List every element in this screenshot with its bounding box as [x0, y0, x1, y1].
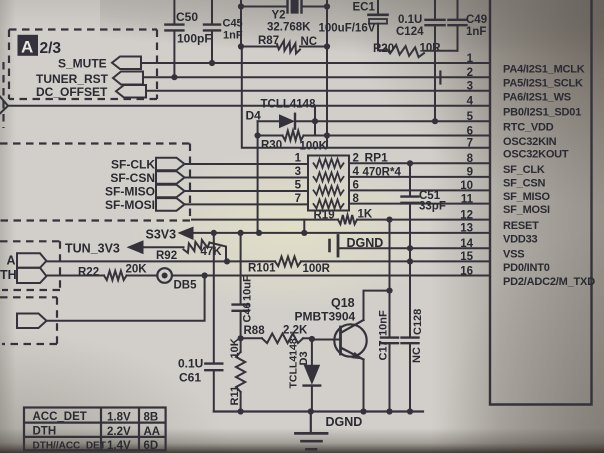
- wire R20 to caps: [424, 50, 458, 52]
- svg-text:RESET: RESET: [503, 220, 539, 232]
- junction collector-C17: [386, 288, 392, 294]
- junction VSS-C128: [407, 245, 413, 251]
- wire off-page to pin 4: [8, 105, 490, 107]
- svg-text:6: 6: [353, 179, 359, 191]
- svg-text:PD2/ADC2/M_TXD: PD2/ADC2/M_TXD: [503, 276, 595, 288]
- node TUN_3V3 arrow: [127, 240, 144, 254]
- svg-text:R101: R101: [248, 263, 276, 275]
- svg-text:2/3: 2/3: [40, 40, 62, 57]
- svg-text:10R: 10R: [420, 43, 442, 55]
- svg-text:AA: AA: [144, 426, 161, 438]
- svg-text:10K: 10K: [229, 338, 241, 358]
- svg-text:R11: R11: [229, 386, 241, 406]
- wire SF line 4 right: [349, 203, 490, 205]
- node S3V3 arrow: [178, 227, 194, 241]
- junction RTC_VDD: [432, 118, 438, 124]
- svg-text:1.4V: 1.4V: [107, 440, 131, 452]
- connector flag S_MUTE: [112, 57, 141, 70]
- wire R92 to PD0 row: [210, 243, 227, 262]
- wire SF line 2 right: [349, 176, 490, 178]
- capacitor C49: [449, 0, 467, 51]
- wire SF line 3 left: [185, 190, 309, 192]
- svg-text:NC: NC: [411, 347, 423, 363]
- svg-text:SF_CSN: SF_CSN: [503, 177, 545, 189]
- svg-text:PD0/INT0: PD0/INT0: [503, 262, 550, 274]
- resistor R19: [338, 215, 357, 224]
- wire ground rail: [214, 410, 423, 412]
- connector flag TH2: [17, 314, 47, 329]
- junction SF_CLK-C51: [407, 160, 413, 166]
- wire PD2 mid: [127, 275, 158, 277]
- resistor R88: [262, 334, 303, 344]
- connector flag DC_OFFSET: [116, 85, 146, 98]
- svg-text:C17: C17: [378, 340, 390, 360]
- svg-text:PA5/I2S1_SCLK: PA5/I2S1_SCLK: [503, 78, 583, 90]
- wire SF line 1 left: [185, 163, 309, 165]
- label A2/3 badge: [18, 35, 62, 57]
- resistor R87: [241, 41, 327, 54]
- svg-text:PMBT3904: PMBT3904: [295, 310, 356, 324]
- svg-text:8B: 8B: [144, 411, 159, 423]
- svg-text:DGND: DGND: [326, 415, 363, 429]
- resistor RP1 element 2: [314, 173, 344, 182]
- svg-text:47K: 47K: [201, 246, 223, 258]
- diode D3: [304, 339, 321, 412]
- capacitor C17: [381, 291, 398, 412]
- svg-text:S_MUTE: S_MUTE: [58, 57, 107, 71]
- junction PD0-C128: [407, 258, 413, 264]
- svg-text:ACC_DET: ACC_DET: [33, 411, 87, 423]
- svg-text:VDD33: VDD33: [503, 233, 538, 245]
- svg-text:6D: 6D: [144, 440, 159, 452]
- svg-text:R92: R92: [156, 250, 177, 262]
- resistor R22: [104, 271, 127, 280]
- wire Q18 collector: [364, 291, 390, 320]
- svg-text:R30: R30: [261, 140, 282, 152]
- svg-text:1: 1: [295, 152, 302, 164]
- svg-text:1.8V: 1.8V: [107, 411, 131, 423]
- svg-text:PB0/I2S1_SD01: PB0/I2S1_SD01: [503, 106, 581, 118]
- svg-text:Q18: Q18: [331, 296, 355, 310]
- wire Q18 emitter: [363, 360, 365, 412]
- svg-text:OSC32KIN: OSC32KIN: [503, 136, 557, 148]
- svg-text:C49: C49: [466, 14, 487, 26]
- svg-text:C61: C61: [179, 371, 201, 385]
- junction crystal corners: [238, 3, 244, 9]
- junction S3V3-C61: [211, 230, 217, 236]
- crystal Y2: [241, 0, 327, 14]
- wire node RTC_VDD left: [258, 120, 279, 122]
- svg-text:TH: TH: [0, 268, 17, 282]
- svg-text:0.1U: 0.1U: [178, 357, 203, 371]
- wire SF line 1 right: [349, 162, 490, 164]
- wire C17 riser: [389, 220, 391, 291]
- svg-text:R88: R88: [244, 325, 266, 337]
- svg-text:470R*4: 470R*4: [363, 167, 402, 179]
- capacitor C46: [233, 233, 249, 352]
- junction R30 left: [255, 132, 261, 138]
- ground DGND symbol: [296, 412, 328, 450]
- junction C50-row2: [171, 74, 177, 80]
- testpoint DB5: [157, 268, 172, 283]
- junction S3V3-R19: [301, 230, 307, 236]
- dashed box TH2: [0, 297, 57, 344]
- svg-text:10uF: 10uF: [242, 275, 254, 301]
- wire crystal stub left: [240, 0, 242, 7]
- wire TH2 to PD2 row: [47, 276, 205, 321]
- junction R88: [238, 335, 244, 341]
- wire OSC32KOUT: [242, 47, 490, 148]
- svg-text:RTC_VDD: RTC_VDD: [503, 122, 554, 134]
- svg-text:R20: R20: [373, 43, 394, 55]
- svg-text:C46: C46: [242, 302, 254, 322]
- svg-text:D4: D4: [246, 109, 262, 123]
- svg-text:A: A: [7, 254, 16, 268]
- dashed box SF group: [0, 144, 190, 221]
- svg-text:VSS: VSS: [503, 249, 524, 261]
- svg-text:DC_OFFSET: DC_OFFSET: [36, 85, 108, 99]
- svg-text:0.1U: 0.1U: [398, 14, 422, 26]
- svg-text:3: 3: [295, 166, 301, 178]
- resistor R20: [386, 45, 424, 57]
- svg-text:1nF: 1nF: [223, 30, 243, 42]
- wire OSC32KIN right: [304, 135, 491, 137]
- svg-text:8: 8: [353, 193, 360, 205]
- junction TH2-PD2: [202, 272, 208, 278]
- resistor RP1 element 3: [314, 186, 344, 195]
- capacitor EC1: [369, 0, 388, 50]
- dashed box A2/3: [9, 30, 157, 100]
- svg-text:OSC32KOUT: OSC32KOUT: [503, 148, 569, 160]
- resistor R101: [275, 257, 301, 267]
- svg-text:33pF: 33pF: [419, 201, 446, 213]
- resistor RP1 element 4: [314, 200, 344, 209]
- wire TUN_3V3: [144, 246, 184, 248]
- svg-text:A: A: [21, 38, 33, 57]
- wire SF line 3 right: [349, 189, 490, 191]
- wire R11 bottom: [240, 392, 242, 412]
- wire R19 tap: [303, 220, 305, 233]
- wire RESET right: [357, 219, 490, 221]
- wire SF line 4 left: [185, 203, 309, 205]
- wire RESET left: [192, 219, 338, 221]
- junction C45-row1: [209, 60, 215, 66]
- svg-text:SF_CLK: SF_CLK: [503, 164, 545, 176]
- resistor R30: [283, 131, 304, 141]
- svg-text:5: 5: [295, 179, 302, 191]
- svg-text:SF-MISO: SF-MISO: [105, 185, 155, 199]
- connector flag SF-CLK: [156, 158, 185, 171]
- svg-text:PA6/I2S1_WS: PA6/I2S1_WS: [503, 91, 571, 103]
- svg-text:SF-CLK: SF-CLK: [111, 158, 155, 172]
- svg-text:10nF: 10nF: [378, 310, 390, 336]
- junction S3V3-D4: [256, 230, 262, 236]
- connector A/TH: [17, 253, 46, 283]
- svg-text:R87: R87: [258, 35, 279, 47]
- wire VSS to pin 14: [338, 247, 490, 249]
- wire OSC32KIN left: [258, 135, 283, 137]
- svg-text:32.768K: 32.768K: [267, 22, 311, 34]
- svg-text:PA4/I2S1_MCLK: PA4/I2S1_MCLK: [503, 64, 585, 76]
- wire S3V3 riser (D4): [257, 121, 259, 233]
- wire PD2 right: [172, 275, 490, 277]
- svg-text:SF-CSN: SF-CSN: [110, 171, 155, 185]
- transistor Q18: [334, 320, 366, 360]
- table signal levels: [24, 408, 166, 451]
- svg-text:NC: NC: [301, 36, 318, 48]
- dashed box A/TH: [0, 241, 60, 290]
- svg-text:D3: D3: [298, 351, 310, 365]
- resistor network RP1 box: [308, 156, 349, 211]
- wire to RTC_VDD: [434, 51, 436, 122]
- junction S3V3-C46: [238, 230, 244, 236]
- resistor R92: [184, 240, 210, 253]
- svg-text:S3V3: S3V3: [146, 228, 177, 242]
- capacitor C124: [426, 0, 445, 51]
- resistor RP1 element 1: [314, 159, 344, 168]
- junction rail dots: [238, 408, 244, 414]
- svg-text:2.2K: 2.2K: [283, 325, 308, 337]
- junction R30 right: [324, 132, 330, 138]
- dashed edge left upper: [2, 62, 4, 128]
- svg-text:RP1: RP1: [365, 151, 389, 165]
- svg-text:R22: R22: [78, 267, 99, 279]
- svg-text:C45: C45: [223, 18, 243, 30]
- svg-text:DB5: DB5: [174, 280, 198, 292]
- wire DC_OFFSET to pin 3: [146, 90, 490, 92]
- connector flag TUNER_RST: [113, 72, 143, 85]
- svg-text:4: 4: [353, 166, 360, 178]
- svg-text:TUN_3V3: TUN_3V3: [65, 242, 120, 256]
- svg-text:TCLL4148: TCLL4148: [261, 99, 317, 111]
- svg-text:Y2: Y2: [272, 10, 286, 22]
- wire TUNER_RST to pin 2: [143, 76, 490, 78]
- svg-text:DTH//ACC_DET: DTH//ACC_DET: [33, 441, 106, 452]
- wire R88 to base node: [303, 337, 312, 339]
- svg-text:SF_MISO: SF_MISO: [503, 191, 551, 203]
- junction Q18 base node: [309, 336, 315, 342]
- wire C128 upper: [409, 248, 411, 336]
- svg-text:DTH: DTH: [33, 425, 57, 437]
- resistor R11: [236, 352, 245, 392]
- wire D4 right leg: [314, 106, 316, 136]
- wire PD2 left: [46, 275, 104, 277]
- svg-text:7: 7: [295, 193, 301, 205]
- svg-text:100R: 100R: [303, 263, 331, 275]
- capacitor C51: [402, 163, 419, 248]
- svg-text:TUNER_RST: TUNER_RST: [36, 72, 109, 86]
- svg-text:SF-MOSI: SF-MOSI: [105, 198, 155, 212]
- connector flag SF-MISO: [156, 185, 185, 198]
- junction R19-C17: [386, 217, 392, 223]
- junction R92-PD0: [224, 258, 230, 264]
- tick on row2: [439, 72, 441, 84]
- wire R88 left: [241, 337, 262, 339]
- wire crystal right leg: [326, 7, 328, 148]
- off-page connector chevron: [0, 97, 8, 114]
- svg-text:100uF/16V: 100uF/16V: [319, 23, 376, 35]
- wire S_MUTE to pin 1: [141, 62, 490, 64]
- capacitor C45: [204, 0, 220, 63]
- capacitor C128: [402, 336, 419, 338]
- wire R20 node: [378, 49, 386, 51]
- ground DGND bar symbol: [328, 240, 331, 251]
- connector flag SF-CSN: [156, 171, 185, 184]
- wire crystal left leg: [240, 7, 242, 47]
- svg-text:2: 2: [353, 152, 359, 164]
- wire PD0/INT0 right: [301, 260, 490, 262]
- svg-text:SF_MOSI: SF_MOSI: [503, 204, 550, 216]
- capacitor C61: [205, 233, 222, 412]
- svg-text:100pF: 100pF: [177, 32, 212, 46]
- wire SF line 2 left: [185, 177, 309, 179]
- svg-text:1nF: 1nF: [466, 26, 486, 38]
- wire PD0/INT0 left: [46, 260, 275, 262]
- diode D4: [279, 114, 490, 129]
- IC U1 microcontroller outline: [490, 0, 592, 405]
- junction D4-row5: [312, 118, 318, 124]
- capacitor C50: [165, 0, 183, 77]
- wire crystal stub right: [326, 0, 328, 7]
- svg-text:C128: C128: [412, 309, 424, 335]
- svg-text:1K: 1K: [358, 209, 373, 221]
- svg-text:EC1: EC1: [353, 2, 376, 14]
- wire base node to Q18: [312, 339, 341, 341]
- svg-text:20K: 20K: [126, 264, 148, 276]
- svg-text:2.2V: 2.2V: [107, 426, 131, 438]
- svg-text:100K: 100K: [300, 141, 328, 153]
- svg-text:C124: C124: [396, 26, 424, 38]
- wire VDD33 rail: [194, 232, 491, 234]
- connector flag SF-MOSI: [156, 198, 185, 211]
- svg-text:C50: C50: [176, 10, 198, 24]
